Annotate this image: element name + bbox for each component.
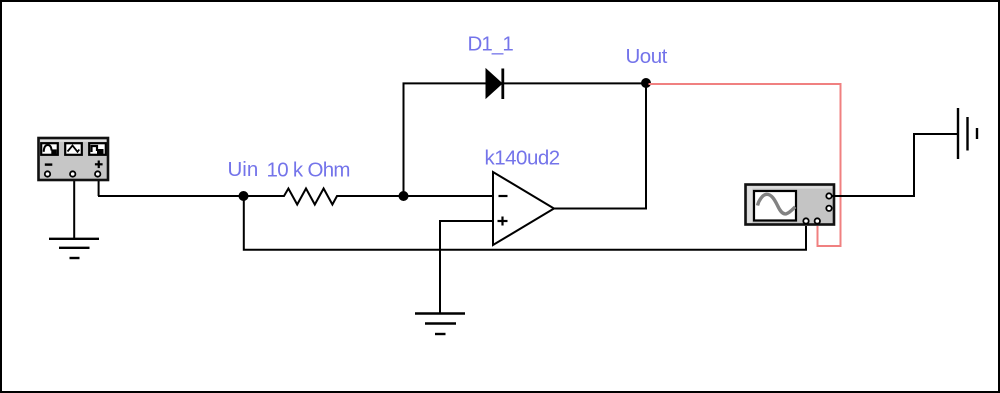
diode D1_1: [486, 69, 502, 98]
op-amp U1: [493, 172, 554, 245]
op-amp plus sign: [498, 220, 508, 222]
ground G3 (rotated): [958, 108, 977, 159]
wire: junction up to diode branch: [403, 83, 405, 196]
wire: generator plus to Uin node: [98, 195, 244, 197]
button triangle: [65, 143, 82, 155]
wire: top branch right segment: [503, 82, 646, 84]
node Uin: [239, 191, 249, 201]
svg-text:10 k Ohm: 10 k Ohm: [267, 159, 350, 182]
wire red: Uout to scope B input: [649, 84, 841, 246]
ground G1: [49, 239, 99, 258]
svg-text:D1_1: D1_1: [468, 33, 514, 56]
svg-text:Uin: Uin: [228, 158, 259, 181]
op-amp minus sign: [499, 195, 508, 197]
ground G2: [415, 314, 465, 335]
svg-text:k140ud2: k140ud2: [485, 147, 560, 170]
resistor R1: [244, 189, 494, 205]
oscilloscope XSC1: [746, 185, 835, 225]
button square: [89, 143, 106, 155]
button sine: [41, 143, 58, 155]
node Uout: [641, 78, 651, 88]
wire: feedback Uin node to scope A input: [244, 196, 806, 250]
svg-text:Uout: Uout: [626, 45, 668, 68]
plus label: [95, 163, 103, 165]
wire: generator mid terminal to ground: [73, 175, 76, 239]
minus label: [45, 163, 53, 165]
wire: scope ground terminal to ground: [832, 134, 957, 196]
terminal circles: [45, 171, 50, 176]
node R-D junction: [399, 191, 409, 201]
wire: generator plus terminal down: [99, 175, 100, 196]
wire: op-amp output: [554, 83, 646, 208]
function generator XFG1: [39, 138, 109, 180]
wire: top branch left segment: [403, 82, 488, 84]
wire: plus input branch: [440, 221, 493, 314]
